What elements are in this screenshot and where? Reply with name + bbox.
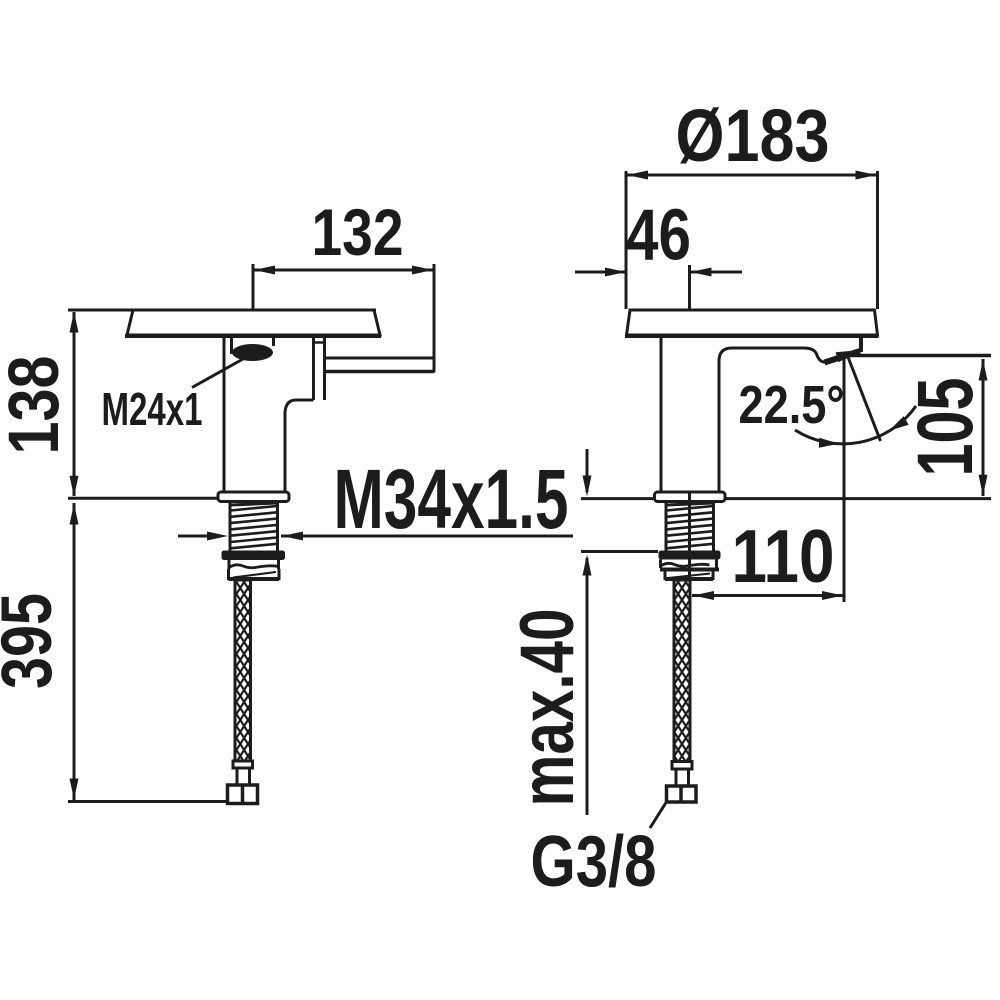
svg-text:132: 132 bbox=[312, 195, 404, 269]
svg-text:138: 138 bbox=[0, 356, 74, 455]
svg-text:max.40: max.40 bbox=[505, 609, 590, 807]
svg-text:M24x1: M24x1 bbox=[102, 383, 203, 435]
svg-text:M34x1.5: M34x1.5 bbox=[334, 452, 569, 546]
svg-text:G3/8: G3/8 bbox=[531, 822, 657, 902]
svg-text:22.5°: 22.5° bbox=[739, 375, 845, 435]
svg-text:110: 110 bbox=[732, 515, 835, 599]
svg-text:395: 395 bbox=[0, 593, 67, 689]
svg-text:46: 46 bbox=[626, 196, 691, 276]
svg-text:105: 105 bbox=[901, 378, 989, 477]
svg-text:Ø183: Ø183 bbox=[676, 94, 830, 177]
